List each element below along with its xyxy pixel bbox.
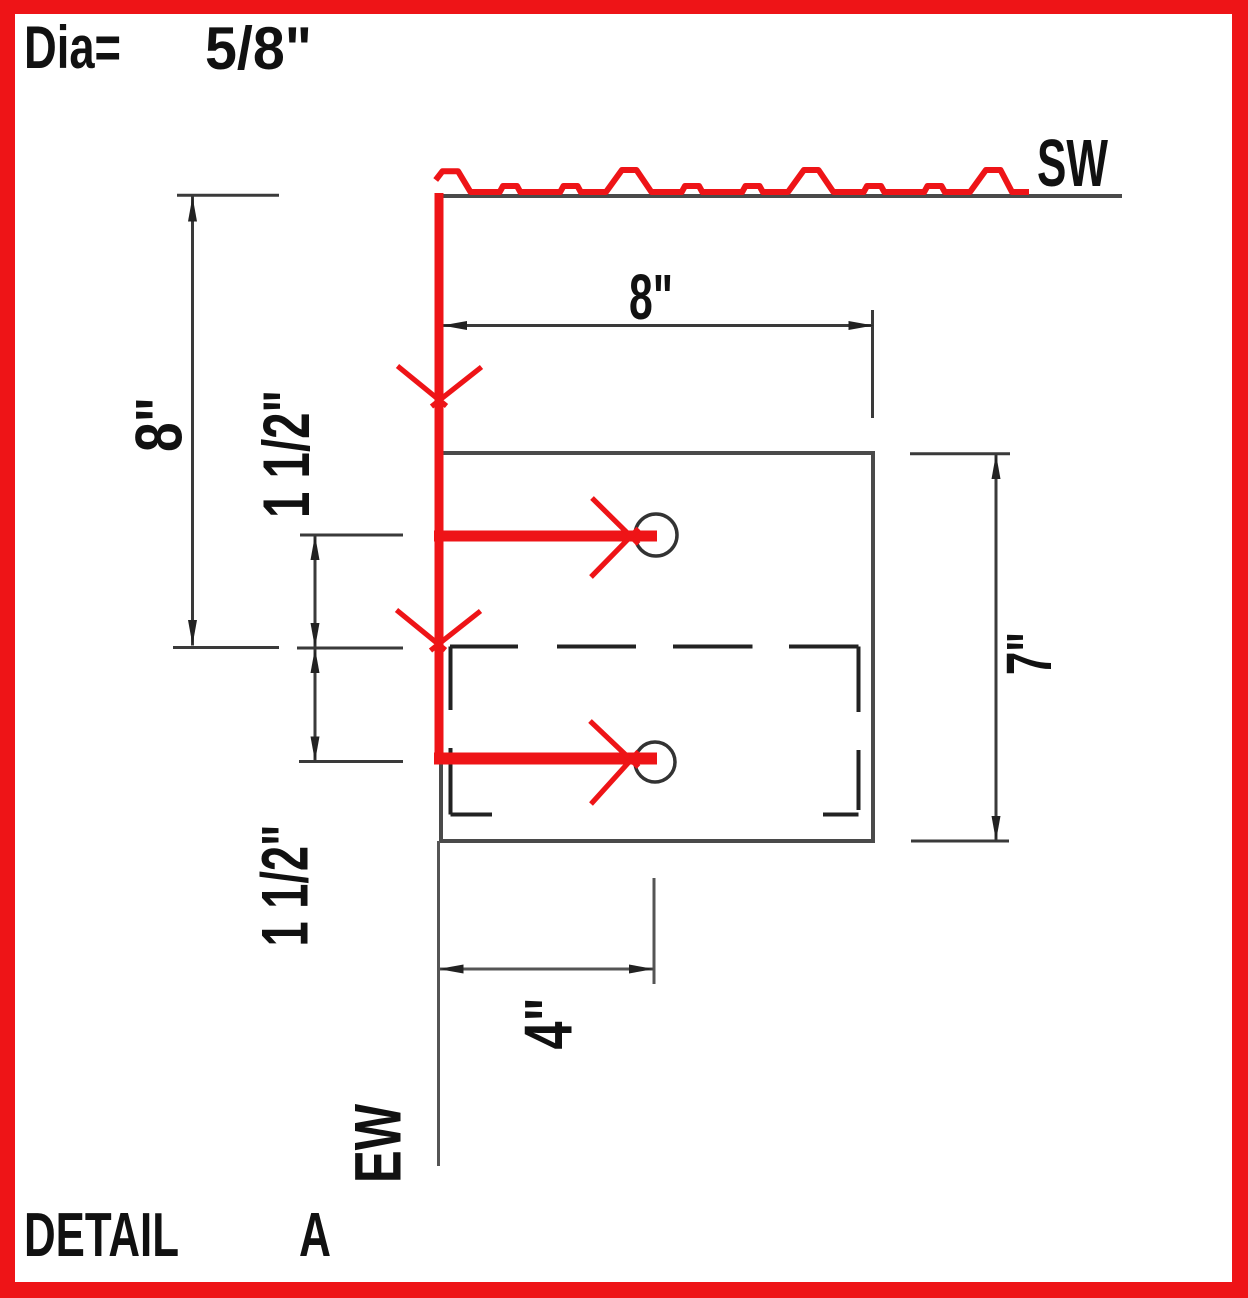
svg-text:SW: SW (1037, 126, 1108, 201)
svg-text:EW: EW (341, 1103, 415, 1183)
svg-text:5/8": 5/8" (205, 15, 312, 82)
svg-text:4": 4" (511, 998, 587, 1050)
svg-text:7": 7" (993, 632, 1065, 675)
svg-text:A: A (299, 1201, 331, 1270)
svg-text:8": 8" (629, 261, 673, 333)
svg-text:1 1/2": 1 1/2" (248, 825, 322, 947)
svg-text:8": 8" (122, 397, 196, 452)
svg-text:Dia=: Dia= (24, 14, 121, 81)
svg-text:1 1/2": 1 1/2" (249, 390, 323, 518)
svg-text:DETAIL: DETAIL (24, 1201, 179, 1270)
